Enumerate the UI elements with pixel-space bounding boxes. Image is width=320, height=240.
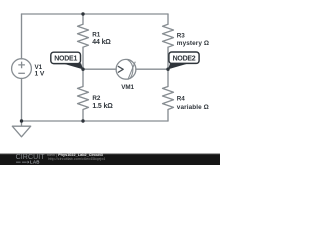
label R2 value [92, 95, 113, 110]
resistor R2 [78, 87, 89, 110]
junction dot R2 bottom [81, 119, 84, 122]
label R3 value [177, 32, 209, 47]
svg-text:LAB: LAB [30, 160, 40, 165]
resistor R3 [163, 24, 174, 47]
svg-text:NODE2: NODE2 [173, 56, 196, 63]
voltmeter VM1 [116, 59, 136, 80]
svg-text:R4: R4 [177, 96, 185, 103]
node flag NODE1 [51, 52, 83, 69]
label R4 value [177, 96, 209, 111]
label V1 value [35, 64, 45, 78]
wire R4 bottom lead [167, 110, 169, 122]
junction dot node2 [166, 68, 169, 71]
svg-text:R1: R1 [92, 32, 100, 39]
svg-text:http://circuitlab.com/c6ex45kq: http://circuitlab.com/c6ex45kqejx4 [48, 157, 105, 161]
wire R1 top lead [82, 14, 84, 24]
svg-text:VM1: VM1 [121, 84, 134, 91]
voltage source V1 [12, 59, 32, 79]
svg-text:44 kΩ: 44 kΩ [92, 39, 111, 46]
node flag NODE2 [168, 52, 199, 69]
wire left rail lower (V1 bottom lead) [21, 78, 23, 121]
svg-text:variable Ω: variable Ω [177, 104, 209, 111]
wire R2 bottom lead [82, 110, 84, 122]
wire R3 bottom lead [167, 47, 169, 69]
wire voltmeter to node2 [136, 68, 168, 70]
wire R3 top lead [167, 14, 169, 24]
footer watermark bar [0, 153, 220, 165]
label R1 value [92, 32, 111, 46]
svg-text:1.5 kΩ: 1.5 kΩ [92, 103, 113, 110]
ground [12, 121, 30, 137]
resistor R1 [78, 24, 89, 47]
svg-text:mystery Ω: mystery Ω [177, 40, 209, 47]
wire top rail [22, 13, 169, 15]
wire node1 to voltmeter [83, 68, 116, 70]
wire R2 top lead [82, 69, 84, 86]
svg-text:NODE1: NODE1 [54, 56, 77, 63]
footer title text [47, 153, 105, 161]
wire R1 bottom lead [82, 47, 84, 69]
svg-text:R3: R3 [177, 32, 185, 39]
resistor R4 [163, 87, 174, 110]
footer logo CIRCUIT LAB [16, 154, 46, 165]
svg-text:R2: R2 [92, 95, 100, 102]
wire bottom rail [22, 120, 169, 122]
junction dot node1 [81, 68, 84, 71]
wire R4 top lead [167, 69, 169, 86]
svg-text:1 V: 1 V [35, 70, 45, 77]
junction dot ground tap [20, 119, 23, 122]
junction dot top R1 [81, 12, 84, 15]
wire left rail upper (V1 top lead) [21, 14, 23, 59]
